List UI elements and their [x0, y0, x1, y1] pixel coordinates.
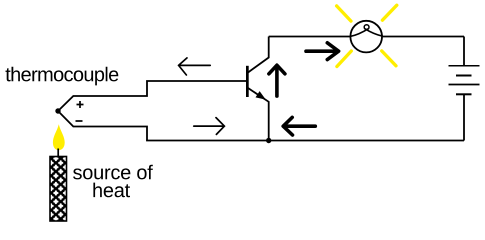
current arrow thick up (beside transistor) [269, 65, 285, 96]
emitter junction dot [266, 138, 271, 143]
wire: right rail lower [463, 94, 465, 140]
battery B1 plate short bottom [456, 93, 472, 95]
wire: bottom rail [146, 140, 464, 142]
battery B1 plate short [456, 75, 472, 77]
label "heat" [93, 183, 130, 198]
transistor Q1 collector lead [247, 37, 268, 74]
wire: right rail upper [463, 37, 465, 66]
current arrow thin right (lower loop) [194, 118, 225, 135]
wire: thermocouple upper (+) leg to transistor base [58, 81, 246, 111]
transistor Q1 emitter lead [248, 88, 269, 141]
lamp ray upper-left [337, 6, 351, 21]
polarity mark - [76, 120, 83, 122]
lamp L1 bulb [350, 21, 382, 53]
lamp L1 filament with loop [351, 29, 383, 37]
wire: top rail [269, 36, 464, 38]
candle wick [57, 149, 59, 158]
lamp ray lower-left [337, 51, 351, 67]
battery B1 plate long top [449, 65, 480, 67]
candle body [50, 157, 67, 222]
lamp ray upper-right [382, 5, 396, 20]
current arrow thin left (upper loop) [179, 58, 211, 75]
current arrow thick right (to lamp) [306, 43, 339, 60]
thermocouple junction dot [55, 108, 60, 113]
label "source of" [73, 165, 153, 180]
label "thermocouple" [6, 67, 119, 86]
polarity mark + [77, 101, 84, 108]
candle flame [53, 124, 65, 150]
wire: thermocouple lower (-) leg down to bottom rail [58, 111, 147, 141]
current arrow thick left (return path) [283, 117, 315, 135]
lamp ray lower-right [382, 51, 396, 66]
battery B1 plate long [449, 84, 480, 86]
transistor Q1 emitter arrowhead [256, 91, 266, 100]
transistor Q1 base bar [246, 66, 249, 97]
